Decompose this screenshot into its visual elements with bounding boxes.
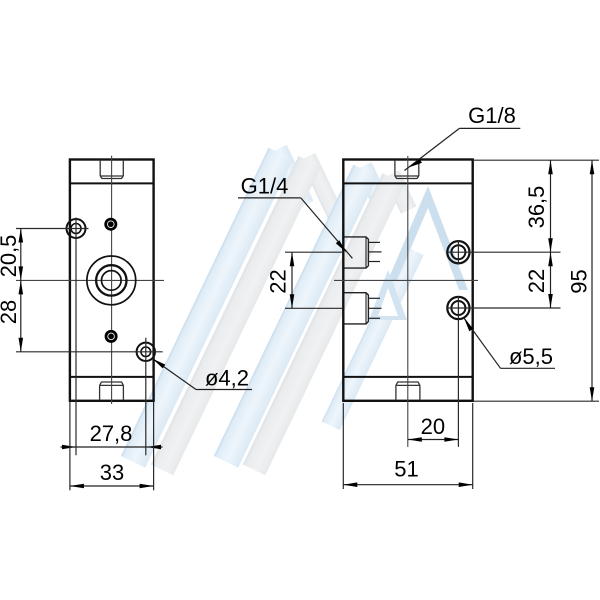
big port circles	[87, 256, 136, 305]
port G1/4 upper pins	[369, 242, 382, 261]
dimension 22 left	[266, 252, 344, 308]
svg-text:28: 28	[0, 300, 21, 324]
left hole crosshair vertical / 27.8 extension	[75, 218, 77, 456]
svg-text:95: 95	[567, 269, 592, 293]
left view horizontal centerline	[16, 279, 164, 281]
svg-text:36,5: 36,5	[524, 186, 549, 229]
hollow peak	[388, 186, 468, 290]
hole 4.2	[137, 343, 155, 361]
port G1/4 lower pins	[369, 298, 382, 318]
chevron right leg 1 blue	[271, 145, 314, 209]
dimension 36,5	[474, 160, 599, 252]
hole 5,5 upper	[447, 240, 560, 265]
left view vertical centerline	[111, 156, 113, 404]
svg-text:33: 33	[100, 460, 124, 485]
hole 5,5 lower	[447, 296, 561, 447]
dimension 95	[474, 160, 599, 401]
label G1/8	[405, 103, 521, 171]
left view bottom plate line	[70, 376, 154, 378]
left mounting hole	[67, 219, 86, 238]
dimension 51	[343, 403, 472, 489]
hole 4.2 crosshair horizontal / 28 extension	[16, 351, 163, 353]
dimension 33	[70, 401, 154, 490]
top screw hole	[104, 218, 117, 231]
watermark logo	[121, 145, 468, 475]
left view bottom notch	[100, 382, 124, 400]
chevron right leg 4 gray	[384, 170, 417, 213]
svg-text:ø5,5: ø5,5	[509, 344, 553, 369]
svg-text:27,8: 27,8	[90, 421, 133, 446]
stripe 2 gray	[151, 156, 321, 475]
small inner triangle	[369, 270, 407, 320]
left view top plate line	[70, 182, 154, 184]
stripe 3 blue	[214, 165, 378, 468]
right view top notch	[395, 160, 419, 179]
right view body outline	[343, 160, 472, 401]
right view bottom notch	[396, 382, 420, 400]
right view vertical centerline / 20 extension	[407, 156, 409, 447]
svg-text:G1/4: G1/4	[241, 174, 289, 199]
svg-text:22: 22	[266, 269, 291, 293]
svg-text:20: 20	[421, 414, 445, 439]
bottom screw hole	[105, 330, 118, 343]
svg-text:22: 22	[524, 269, 549, 293]
chevron right leg 2 gray	[300, 153, 350, 232]
svg-text:20,5: 20,5	[0, 235, 21, 278]
dimension 22 right	[524, 252, 553, 308]
stripe 1 blue	[121, 148, 293, 468]
left hole crosshair horizontal	[16, 228, 89, 230]
svg-text:51: 51	[394, 457, 418, 482]
stripe 4 gray	[243, 173, 405, 475]
svg-text:G1/8: G1/8	[468, 103, 516, 128]
chevron right leg 3 blue	[355, 162, 392, 213]
label G1/4	[238, 174, 352, 259]
right view horizontal centerline	[334, 279, 478, 281]
right view bottom plate line	[343, 376, 472, 378]
dimension 28	[0, 280, 23, 351]
left view body outline	[70, 160, 154, 401]
label diameter 4,2	[152, 359, 252, 391]
label diameter 5,5	[464, 318, 555, 369]
port G1/4 lower box	[345, 293, 369, 324]
dimension 27,8	[61, 421, 163, 449]
svg-text:ø4,2: ø4,2	[205, 366, 249, 391]
dimension 20,5	[0, 229, 23, 281]
left view top notch	[100, 160, 123, 179]
hole 4.2 crosshair vertical / 27.8 extension	[145, 338, 147, 456]
dimension 20	[408, 414, 459, 442]
right view top plate line	[343, 182, 472, 184]
port G1/4 upper box	[345, 237, 369, 268]
stripe 5 blue short	[322, 246, 424, 430]
